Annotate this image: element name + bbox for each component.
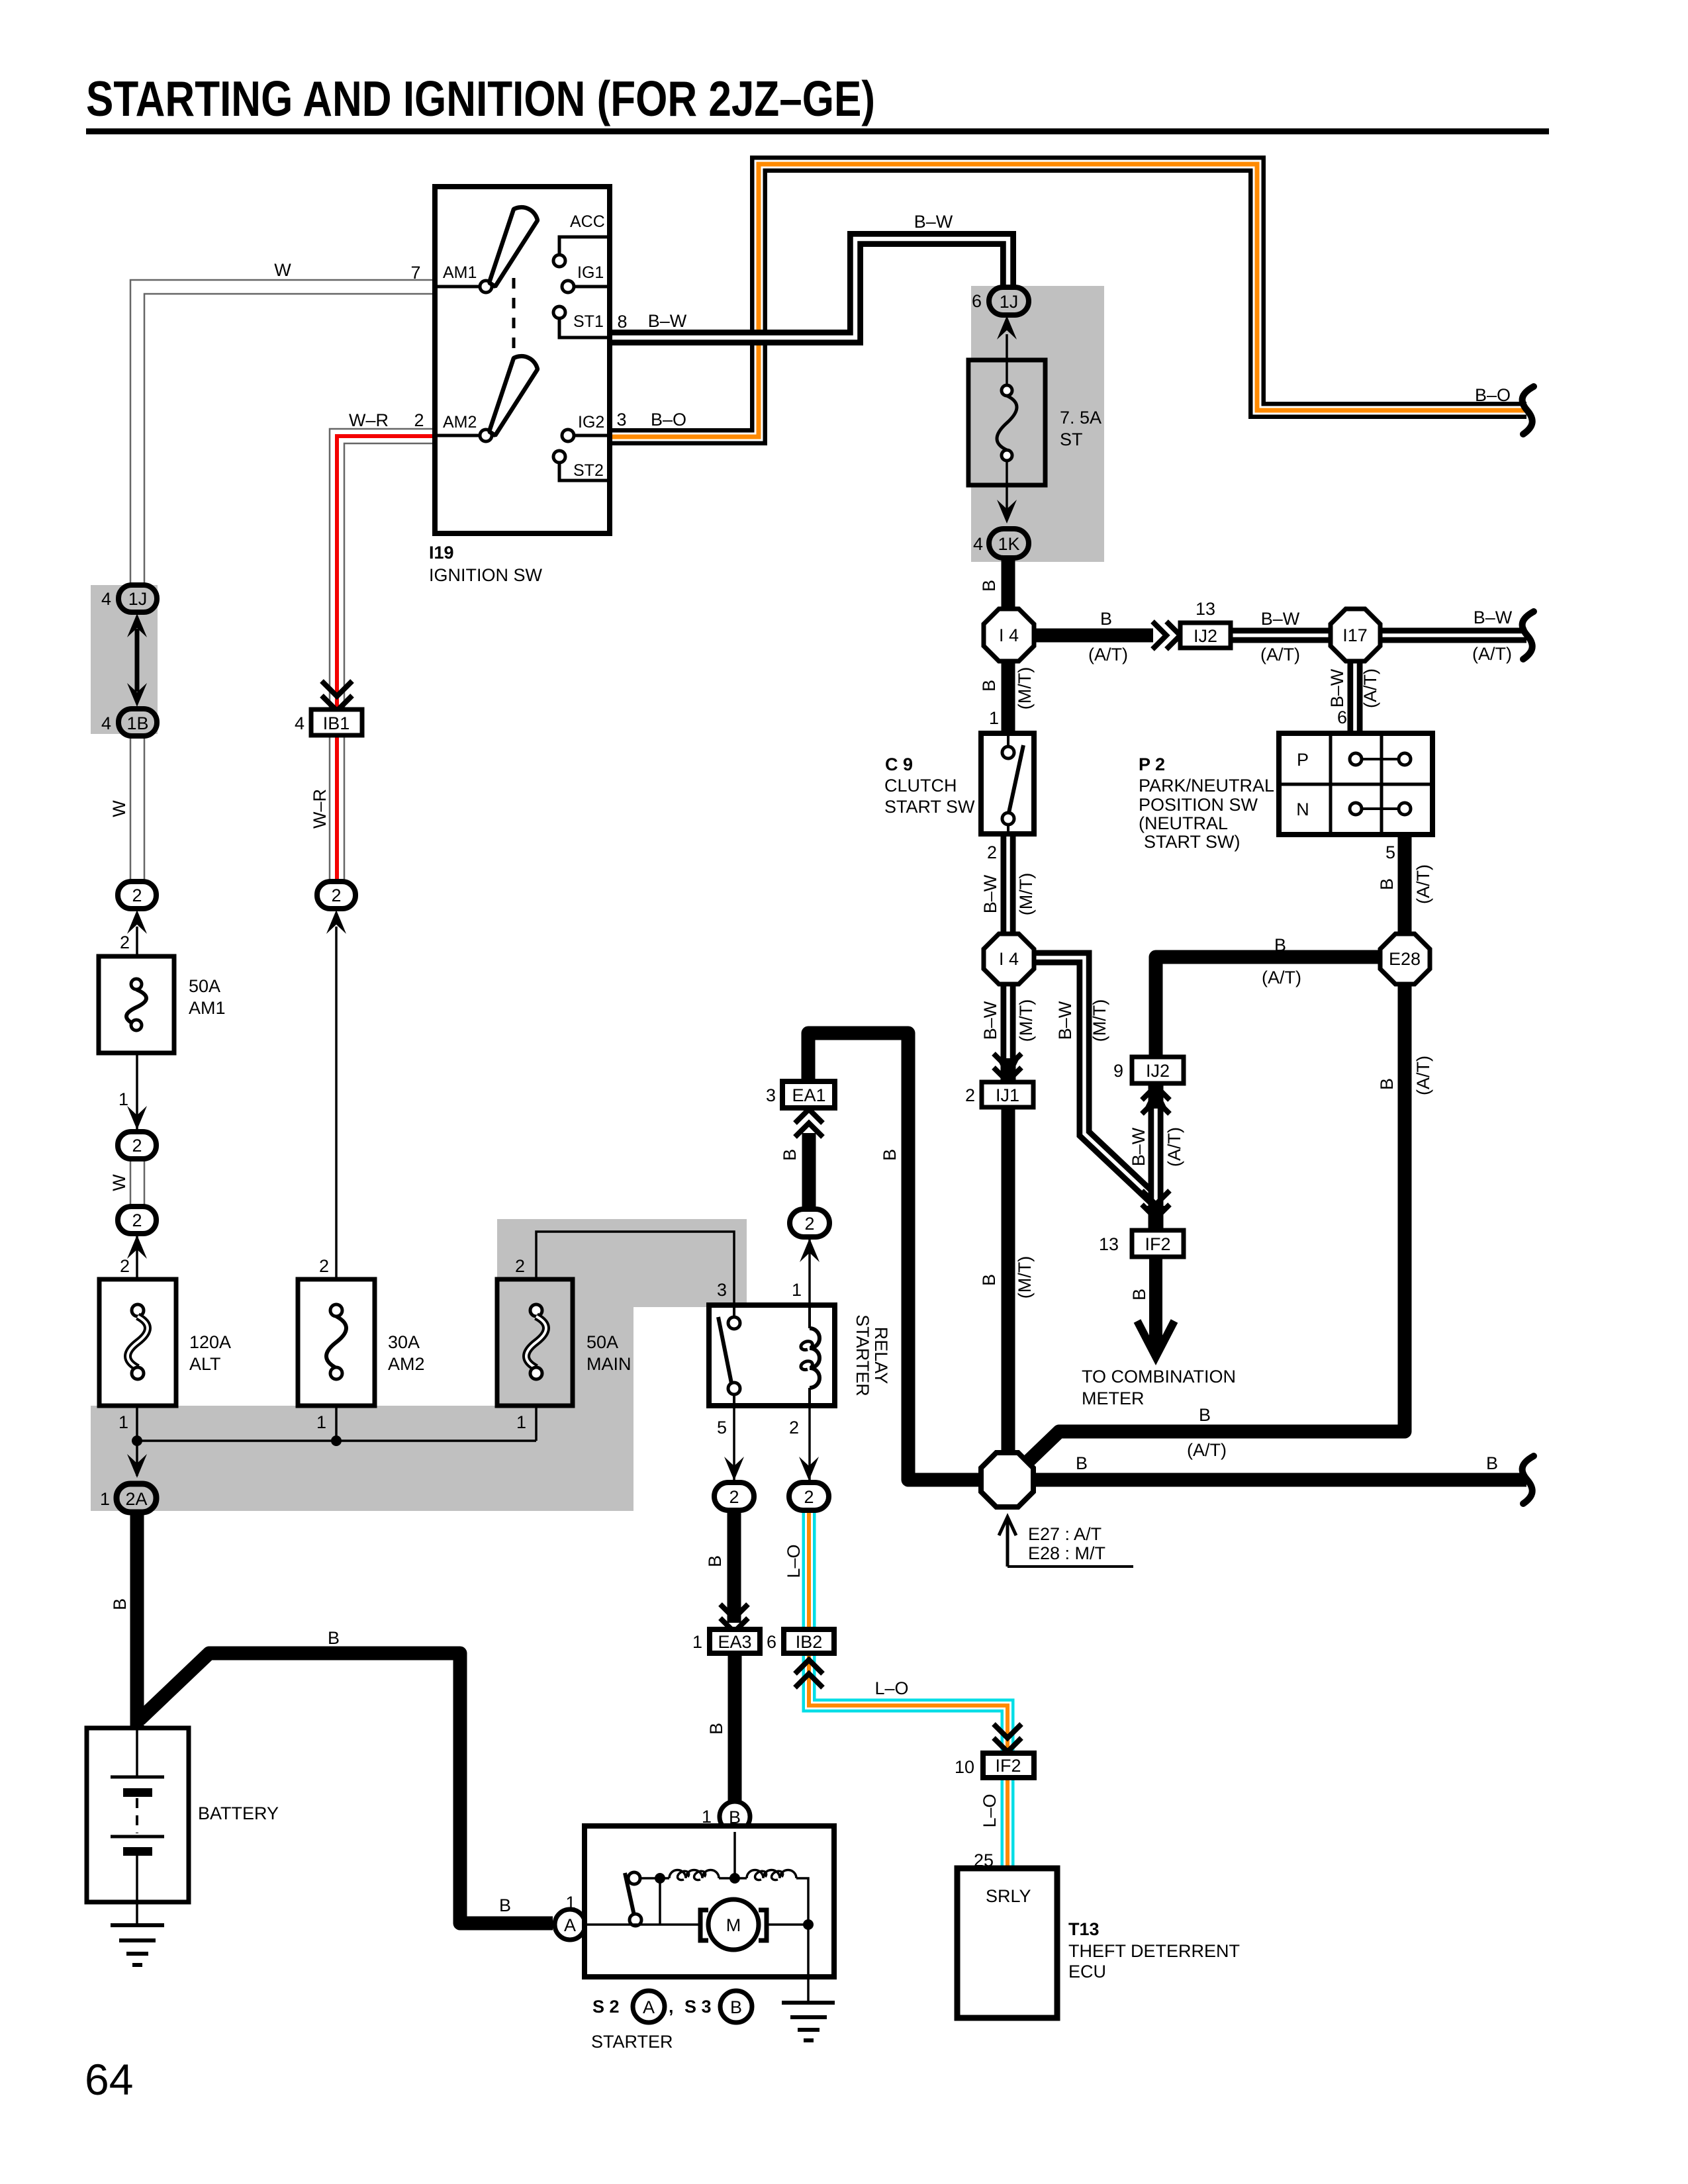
arrow up into connector 2 (W-R)	[326, 910, 346, 934]
svg-text:C 9: C 9	[885, 754, 913, 774]
svg-text:L–O: L–O	[980, 1794, 1000, 1827]
starter pin labels S2 A S3 B	[592, 1991, 752, 2023]
label 2 (AM1 fuse top)	[120, 933, 130, 952]
clutch start switch C9 box	[981, 733, 1034, 834]
label 2 (IJ1)	[965, 1085, 975, 1105]
svg-text:1: 1	[989, 708, 999, 728]
ignition switch AM1 terminal	[435, 281, 492, 293]
label I19	[429, 543, 454, 563]
label B-W (ST1 wire)	[648, 311, 687, 331]
svg-text:4: 4	[101, 713, 111, 733]
arrow up into connector 2	[127, 910, 147, 934]
label W top	[274, 260, 291, 280]
label B (near A circle)	[499, 1895, 511, 1915]
wire B-W: ST1 to 1J (staircase)	[610, 239, 1008, 338]
svg-text:6: 6	[1337, 707, 1347, 727]
svg-text:P: P	[1297, 750, 1309, 770]
label B EA1 loop	[880, 1149, 900, 1161]
svg-text:2: 2	[789, 1418, 799, 1437]
double chevron down into IF2 (bottom)	[994, 1724, 1021, 1752]
wire: connector 2 to starter relay pin 1	[808, 1236, 811, 1305]
label 9 (IJ2)	[1113, 1061, 1123, 1081]
svg-text:(M/T): (M/T)	[1015, 667, 1035, 709]
svg-text:B–W: B–W	[1261, 609, 1300, 629]
label P2 name	[1139, 754, 1274, 852]
svg-text:2: 2	[132, 1136, 142, 1156]
label B (IF2-meter)	[1129, 1289, 1149, 1300]
wire B-W: C9 pin 2 to I4 (M/T)	[1001, 834, 1016, 936]
svg-text:1: 1	[100, 1489, 110, 1509]
wire B: 2A to battery	[130, 1509, 144, 1731]
wire: connector 2 to fuse AM2	[335, 927, 338, 1279]
wire L-O: connector 2 to IB2	[802, 1506, 816, 1629]
svg-text:IF2: IF2	[1145, 1234, 1170, 1254]
svg-text:B: B	[1486, 1453, 1498, 1473]
off-page break B-O	[1523, 387, 1534, 434]
svg-text:IJ1: IJ1	[996, 1085, 1019, 1105]
P2 contact row P	[1297, 750, 1411, 770]
starter internal: magnetic switch	[625, 1872, 641, 1926]
label B-W (staircase)	[914, 212, 953, 232]
double chevron down into IF2	[1142, 1191, 1170, 1218]
label 5 (P2 pin)	[1385, 842, 1395, 862]
wire W: 1B to connector 2	[130, 734, 144, 882]
wire B: EA1 to connector 2 (relay feed)	[802, 1133, 816, 1210]
connector I4 octagon (upper)	[984, 609, 1034, 661]
svg-text:(M/T): (M/T)	[1016, 999, 1036, 1042]
svg-text:B: B	[328, 1628, 340, 1648]
wire: starter relay pin 2 to connector 2	[808, 1406, 811, 1482]
label 1 (ALT bottom)	[118, 1412, 128, 1432]
connector IJ2 (pin 13)	[1180, 623, 1231, 648]
starter motor M	[700, 1899, 767, 1950]
label 1 (C9 pin)	[989, 708, 999, 728]
connector 2 (W wire)	[118, 882, 156, 909]
gray panel: ST fuse block (top right)	[971, 286, 1104, 562]
starter internal junction dots	[655, 1873, 814, 1930]
label STARTER	[591, 2032, 673, 2052]
off-page break B bottom	[1523, 1456, 1534, 1504]
fuse 50A AM1	[99, 956, 174, 1053]
label IG2	[578, 413, 604, 432]
arrow down into connector 2 (pin5)	[724, 1457, 744, 1480]
starter relay name	[853, 1314, 891, 1396]
ignition switch I19 box	[435, 187, 610, 533]
battery cells	[111, 1728, 164, 1925]
arrow down into 1K	[997, 500, 1017, 523]
wire B: EA1 loop to E27/E28 octagon	[808, 1033, 983, 1480]
ignition switch AM2 terminal	[435, 430, 492, 441]
label B near break bottom	[1486, 1453, 1498, 1473]
svg-text:1B: 1B	[126, 713, 148, 733]
label B (M/T) IJ1-octagon	[979, 1256, 1035, 1298]
wire B: I4 to C9 pin 1 (M/T)	[1002, 659, 1015, 733]
svg-text:I19: I19	[429, 543, 454, 563]
wire B: EA3 to starter B terminal	[728, 1653, 742, 1803]
svg-text:2: 2	[132, 1210, 142, 1230]
label ST1	[573, 312, 604, 331]
connector 2 (second)	[118, 1132, 156, 1159]
wire: starter relay pin 5 to connector 2	[733, 1406, 735, 1482]
wire B-O: IG2 to off-page right	[610, 164, 1526, 437]
label W (vertical short)	[109, 1174, 129, 1191]
label B (battery-starter horizontal)	[328, 1628, 340, 1648]
double chevron right into IJ2	[1152, 621, 1180, 649]
gray panel: junction block 1J/1B (left)	[91, 585, 158, 734]
label BATTERY	[198, 1803, 279, 1823]
svg-text:13: 13	[1196, 599, 1215, 619]
svg-text:IG1: IG1	[577, 263, 604, 282]
svg-text:AM2: AM2	[443, 413, 477, 432]
label pin 8	[617, 312, 627, 332]
svg-text:50A: 50A	[189, 976, 220, 996]
label L-O horizontal	[874, 1678, 908, 1698]
label 4 (IB1)	[295, 713, 305, 733]
connector 2A	[117, 1484, 156, 1512]
label W-R top	[349, 410, 389, 430]
double chevron down into IB1	[322, 681, 352, 711]
svg-text:START SW: START SW	[884, 797, 975, 817]
svg-text:B: B	[1377, 878, 1397, 890]
wire: connector 2 to fuse ALT	[136, 1236, 138, 1279]
label 2 (AM2 top)	[319, 1256, 329, 1276]
svg-text:B: B	[880, 1149, 900, 1161]
title	[86, 71, 875, 126]
ground (battery)	[111, 1925, 164, 1965]
label 4 (1K)	[973, 534, 983, 554]
wire: fuse ALT to junction and 2A	[136, 1406, 138, 1476]
svg-text:1: 1	[792, 1280, 802, 1300]
ignition switch IG2 terminal	[562, 430, 610, 441]
connector 1J (left block)	[118, 585, 157, 612]
label 10 (IF2)	[955, 1757, 974, 1777]
svg-text:ACC: ACC	[570, 212, 605, 231]
arrow to combination meter	[1137, 1321, 1174, 1357]
ignition switch ACC terminal	[553, 237, 610, 267]
svg-text:B–W: B–W	[1055, 1001, 1075, 1040]
arrow down into connector 2	[127, 1106, 147, 1130]
label 3 (relay pin3)	[717, 1280, 727, 1300]
svg-text:4: 4	[101, 589, 111, 609]
ignition switch rotor link (dashed)	[512, 278, 516, 364]
svg-text:IGNITION SW: IGNITION SW	[429, 565, 543, 585]
label B (2A-battery)	[110, 1598, 130, 1610]
label B (relay-EA3)	[705, 1555, 725, 1567]
svg-text:B: B	[1129, 1289, 1149, 1300]
svg-text:W: W	[109, 1174, 129, 1191]
svg-text:RELAY: RELAY	[871, 1327, 891, 1385]
connector E28 octagon	[1380, 934, 1430, 984]
svg-text:13: 13	[1099, 1234, 1119, 1254]
svg-text:I17: I17	[1342, 625, 1368, 645]
ignition switch AM2 rotor wedge	[489, 356, 538, 435]
svg-text:2: 2	[120, 933, 130, 952]
off-page break B-W	[1523, 612, 1534, 659]
label L-O (relay-IB2)	[784, 1544, 804, 1578]
wire W-R: AM2 to IB1	[330, 429, 435, 708]
svg-text:7. 5A: 7. 5A	[1060, 408, 1102, 428]
label 13 (IF2)	[1099, 1234, 1119, 1254]
label W (vertical, 1B)	[109, 800, 129, 817]
svg-text:PARK/NEUTRAL: PARK/NEUTRAL	[1139, 776, 1274, 796]
label 50A MAIN	[586, 1332, 632, 1374]
svg-text:STARTING AND IGNITION (FOR 2JZ: STARTING AND IGNITION (FOR 2JZ–GE)	[86, 71, 875, 126]
svg-text:2: 2	[414, 410, 424, 430]
label 2 (relay pin2)	[789, 1418, 799, 1437]
wire B-W: I4 to IJ1 (M/T)	[997, 984, 1019, 1082]
label B-W (M/T) I4-IJ1	[980, 999, 1036, 1042]
double chevron up into IB2	[795, 1660, 823, 1688]
svg-text:2A: 2A	[125, 1489, 147, 1509]
svg-text:EA1: EA1	[792, 1085, 825, 1105]
label T13 name	[1068, 1919, 1240, 1981]
wire B-W: I17 to off-page right (A/T)	[1380, 628, 1526, 643]
svg-text:B–W: B–W	[914, 212, 953, 232]
svg-text:B: B	[979, 1274, 999, 1286]
svg-text:B: B	[730, 1997, 742, 2017]
svg-text:4: 4	[973, 534, 983, 554]
svg-text:1: 1	[316, 1412, 326, 1432]
svg-text:(A/T): (A/T)	[1472, 644, 1512, 664]
svg-text:3: 3	[616, 410, 626, 430]
svg-text:2: 2	[132, 886, 142, 905]
gray panel: relay block / fuse band (staircase)	[91, 1219, 747, 1511]
svg-text:(NEUTRAL: (NEUTRAL	[1139, 813, 1228, 833]
svg-text:AM2: AM2	[388, 1354, 425, 1374]
label 1 (EA3)	[692, 1632, 702, 1652]
junction dot at ALT	[132, 1435, 142, 1446]
svg-text:2: 2	[804, 1487, 814, 1507]
connector 2 (relay pin 5 out)	[714, 1482, 754, 1510]
wire B: IF2 to combination meter arrow	[1149, 1257, 1162, 1351]
svg-text:(A/T): (A/T)	[1260, 645, 1300, 664]
svg-text:BATTERY: BATTERY	[198, 1803, 279, 1823]
label 1 (relay pin1)	[792, 1280, 802, 1300]
ignition switch ST1 terminal	[553, 306, 610, 338]
svg-text:B: B	[1377, 1078, 1397, 1090]
svg-text:1: 1	[118, 1412, 128, 1432]
svg-text:IB1: IB1	[323, 713, 350, 733]
wire B-W: IJ2 to I17 (A/T)	[1231, 628, 1331, 643]
svg-text:(A/T): (A/T)	[1164, 1127, 1184, 1167]
label IG1	[577, 263, 604, 282]
label 1 (AM1 fuse bottom)	[118, 1089, 128, 1109]
starter relay box	[709, 1305, 835, 1406]
label 2 (MAIN top)	[515, 1256, 525, 1276]
label 1 (A circle)	[565, 1893, 575, 1913]
connector 2 (third)	[118, 1206, 156, 1234]
label 7.5A ST	[1060, 408, 1102, 449]
svg-text:MAIN: MAIN	[586, 1354, 632, 1374]
label B-O (IG2 wire)	[651, 410, 686, 430]
svg-text:I 4: I 4	[999, 949, 1019, 969]
svg-text:P 2: P 2	[1139, 754, 1165, 774]
label B-W (A/T) IJ2-IF2	[1129, 1127, 1184, 1167]
wire W-R: IB1 to connector 2	[330, 735, 344, 882]
connector 1B	[118, 709, 157, 736]
svg-text:(A/T): (A/T)	[1413, 864, 1433, 904]
starter connector B circle	[720, 1801, 750, 1832]
ignition switch IG1 terminal	[562, 281, 610, 293]
svg-text:T13: T13	[1068, 1919, 1100, 1939]
svg-text:1J: 1J	[1000, 292, 1019, 312]
label 3 (EA1)	[766, 1085, 776, 1105]
wire: 1J to 1B link	[135, 629, 140, 692]
svg-text:B–W: B–W	[648, 311, 687, 331]
connector 1J (top right)	[989, 287, 1029, 315]
connector IJ1 (pin 2)	[982, 1082, 1033, 1107]
svg-text:(A/T): (A/T)	[1360, 668, 1380, 708]
svg-text:S 3: S 3	[684, 1997, 712, 2017]
connector E27/E28 octagon	[981, 1453, 1033, 1507]
wire B-W: IJ2 to IF2 (A/T)	[1145, 1084, 1167, 1230]
label B (A/T) E28-IJ2	[1262, 935, 1301, 987]
svg-text:B: B	[979, 580, 999, 592]
connector I17 octagon	[1331, 609, 1380, 661]
svg-text:START SW): START SW)	[1144, 832, 1241, 852]
connector IB1 (pin 4)	[311, 709, 362, 735]
battery box	[87, 1728, 189, 1902]
label 120A ALT	[189, 1332, 231, 1374]
connector IJ2 lower (pin 9)	[1132, 1057, 1184, 1083]
arrow up into connector 2 (relay 1)	[800, 1238, 820, 1262]
wire B: I4 to IJ2 (A/T)	[1034, 629, 1153, 643]
label B (M/T) I4-C9	[979, 667, 1035, 709]
svg-text:6: 6	[767, 1632, 776, 1652]
arrow down into 1B	[127, 683, 147, 707]
label B (A/T) E28 down	[1377, 1056, 1433, 1095]
svg-text:8: 8	[617, 312, 627, 332]
svg-text:2: 2	[515, 1256, 525, 1276]
label B (1K-I4)	[979, 580, 999, 592]
label 2 (ALT top)	[120, 1256, 130, 1276]
connector 2 (W-R wire)	[317, 882, 355, 909]
wire B: IJ1 to E27/E28 octagon (M/T)	[1002, 1107, 1015, 1456]
svg-text:B: B	[110, 1598, 130, 1610]
connector EA3 (pin 1)	[710, 1629, 760, 1653]
svg-text:50A: 50A	[586, 1332, 618, 1352]
junction dot at AM2	[331, 1435, 342, 1446]
label 6 (IB2)	[767, 1632, 776, 1652]
svg-text:B–O: B–O	[1475, 385, 1511, 405]
double chevron up into EA1	[795, 1109, 823, 1137]
label B (A/T) I4-IJ2	[1088, 609, 1128, 664]
svg-text:W: W	[109, 800, 129, 817]
svg-text:IB2: IB2	[796, 1632, 823, 1652]
svg-text:STARTER: STARTER	[591, 2032, 673, 2052]
svg-text:64: 64	[85, 2055, 133, 2104]
svg-text:B–W: B–W	[980, 1001, 1000, 1040]
svg-text:(M/T): (M/T)	[1090, 999, 1109, 1042]
svg-text:4: 4	[295, 713, 305, 733]
svg-text:(M/T): (M/T)	[1015, 1256, 1035, 1298]
label 13 (IJ2)	[1196, 599, 1215, 619]
E27/E28 leader note	[999, 1517, 1133, 1567]
svg-text:B–W: B–W	[980, 874, 1000, 913]
starter box	[585, 1826, 834, 1977]
arrow down into 2A	[127, 1454, 147, 1478]
label B-W (A/T) I17-P2	[1327, 668, 1380, 708]
connector EA1 (pin 3)	[782, 1081, 835, 1108]
svg-text:B–W: B–W	[1474, 608, 1513, 627]
label 50A AM1	[189, 976, 226, 1018]
label ACC	[570, 212, 605, 231]
label 1 (AM2 bottom)	[316, 1412, 326, 1432]
svg-text:(A/T): (A/T)	[1187, 1440, 1227, 1460]
label AM2	[443, 413, 477, 432]
svg-text:120A: 120A	[189, 1332, 231, 1352]
wire B-W: I4 to IF2 branch (M/T diagonal)	[1034, 958, 1154, 1200]
wire W: AM1 to 1J junction block	[130, 280, 435, 585]
fuse 120A ALT	[99, 1279, 176, 1406]
svg-text:(M/T): (M/T)	[1016, 873, 1036, 915]
svg-text:2: 2	[965, 1085, 975, 1105]
svg-text:CLUTCH: CLUTCH	[884, 776, 957, 796]
fuse 30A AM2	[298, 1279, 375, 1406]
label 30A AM2	[388, 1332, 425, 1374]
svg-text:ST1: ST1	[573, 312, 604, 331]
label 4 (1J left)	[101, 589, 111, 609]
svg-text:ALT: ALT	[189, 1354, 221, 1374]
svg-text:2: 2	[804, 1214, 814, 1234]
svg-text:N: N	[1296, 799, 1309, 819]
svg-text:25: 25	[974, 1850, 994, 1870]
double chevron up into IJ2	[1142, 1086, 1170, 1114]
connector 1K	[989, 529, 1029, 558]
arrow up into connector 2 third	[127, 1235, 147, 1259]
svg-text:POSITION SW: POSITION SW	[1139, 795, 1258, 815]
wire: fuse bus junction line	[137, 1439, 536, 1442]
arrow up into 1J	[997, 316, 1017, 340]
label pin 7 AM1	[410, 263, 420, 283]
ignition switch AM1 rotor wedge	[489, 207, 538, 287]
connector IB2 (pin 6)	[784, 1629, 834, 1653]
wire: 1J to fuse ST	[1006, 334, 1008, 390]
wire B: E28 to IJ2 (A/T)	[1156, 957, 1380, 1059]
label B near octagon right	[1076, 1453, 1088, 1473]
svg-text:L–O: L–O	[874, 1678, 908, 1698]
label 1 (2A)	[100, 1489, 110, 1509]
svg-text:B: B	[1274, 935, 1286, 955]
svg-text:B–W: B–W	[1327, 668, 1347, 707]
label IGNITION SW	[429, 565, 543, 585]
wire B-W: I17 to P2 (A/T)	[1348, 661, 1363, 733]
svg-text:IJ2: IJ2	[1146, 1061, 1170, 1081]
label 1 (B circle)	[702, 1807, 712, 1827]
arrow down into connector 2 (pin2)	[799, 1457, 819, 1480]
double chevron down into IJ1	[994, 1054, 1021, 1081]
svg-text:5: 5	[1385, 842, 1395, 862]
svg-text:(A/T): (A/T)	[1413, 1056, 1433, 1095]
connector 2 (relay pin 1 feed)	[790, 1209, 829, 1237]
wire: fuse AM1 to connector 2	[136, 1053, 138, 1129]
wire W: between connectors 2 and 2	[130, 1158, 144, 1207]
svg-text:B: B	[780, 1149, 800, 1161]
svg-text:STARTER: STARTER	[853, 1314, 872, 1396]
wire L-O: IF2 to T13 SRLY	[1001, 1778, 1015, 1868]
starter internal: B lead down	[733, 1832, 736, 1878]
svg-text:5: 5	[717, 1418, 727, 1437]
svg-text:B: B	[705, 1555, 725, 1567]
label 4 (1B)	[101, 713, 111, 733]
starter internal: field coils	[640, 1870, 808, 1925]
label B-W (M/T) C9-I4	[980, 873, 1036, 915]
svg-text:1K: 1K	[998, 534, 1019, 554]
wire B: P2 pin 5 to E28 (A/T)	[1398, 835, 1412, 936]
svg-text:L–O: L–O	[784, 1544, 804, 1578]
label 1 (MAIN bottom)	[516, 1412, 526, 1432]
svg-text:B: B	[706, 1723, 726, 1735]
